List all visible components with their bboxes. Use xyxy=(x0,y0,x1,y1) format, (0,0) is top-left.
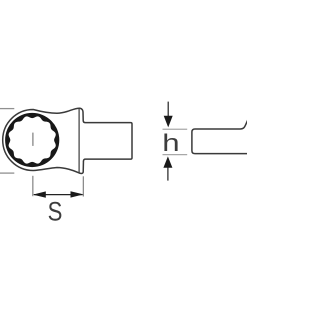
wire xyxy=(0,108,14,110)
ext line S right xyxy=(82,176,84,196)
tick h top xyxy=(163,128,188,130)
wire xyxy=(0,172,14,174)
dim arrow h top xyxy=(167,102,169,118)
tick h bottom xyxy=(163,154,188,156)
arrow S left xyxy=(33,191,46,197)
center mark xyxy=(32,133,34,146)
dim arrow h bottom xyxy=(163,156,172,167)
head silhouette xyxy=(3,108,132,173)
svg-text:S: S xyxy=(48,198,63,228)
head face edge xyxy=(78,109,80,173)
ext line S left xyxy=(32,176,34,196)
svg-text:h: h xyxy=(162,130,179,157)
side view bar xyxy=(192,119,248,153)
arrow S right xyxy=(71,191,84,197)
dim line S xyxy=(34,194,83,196)
ring 12pt band xyxy=(5,113,59,167)
